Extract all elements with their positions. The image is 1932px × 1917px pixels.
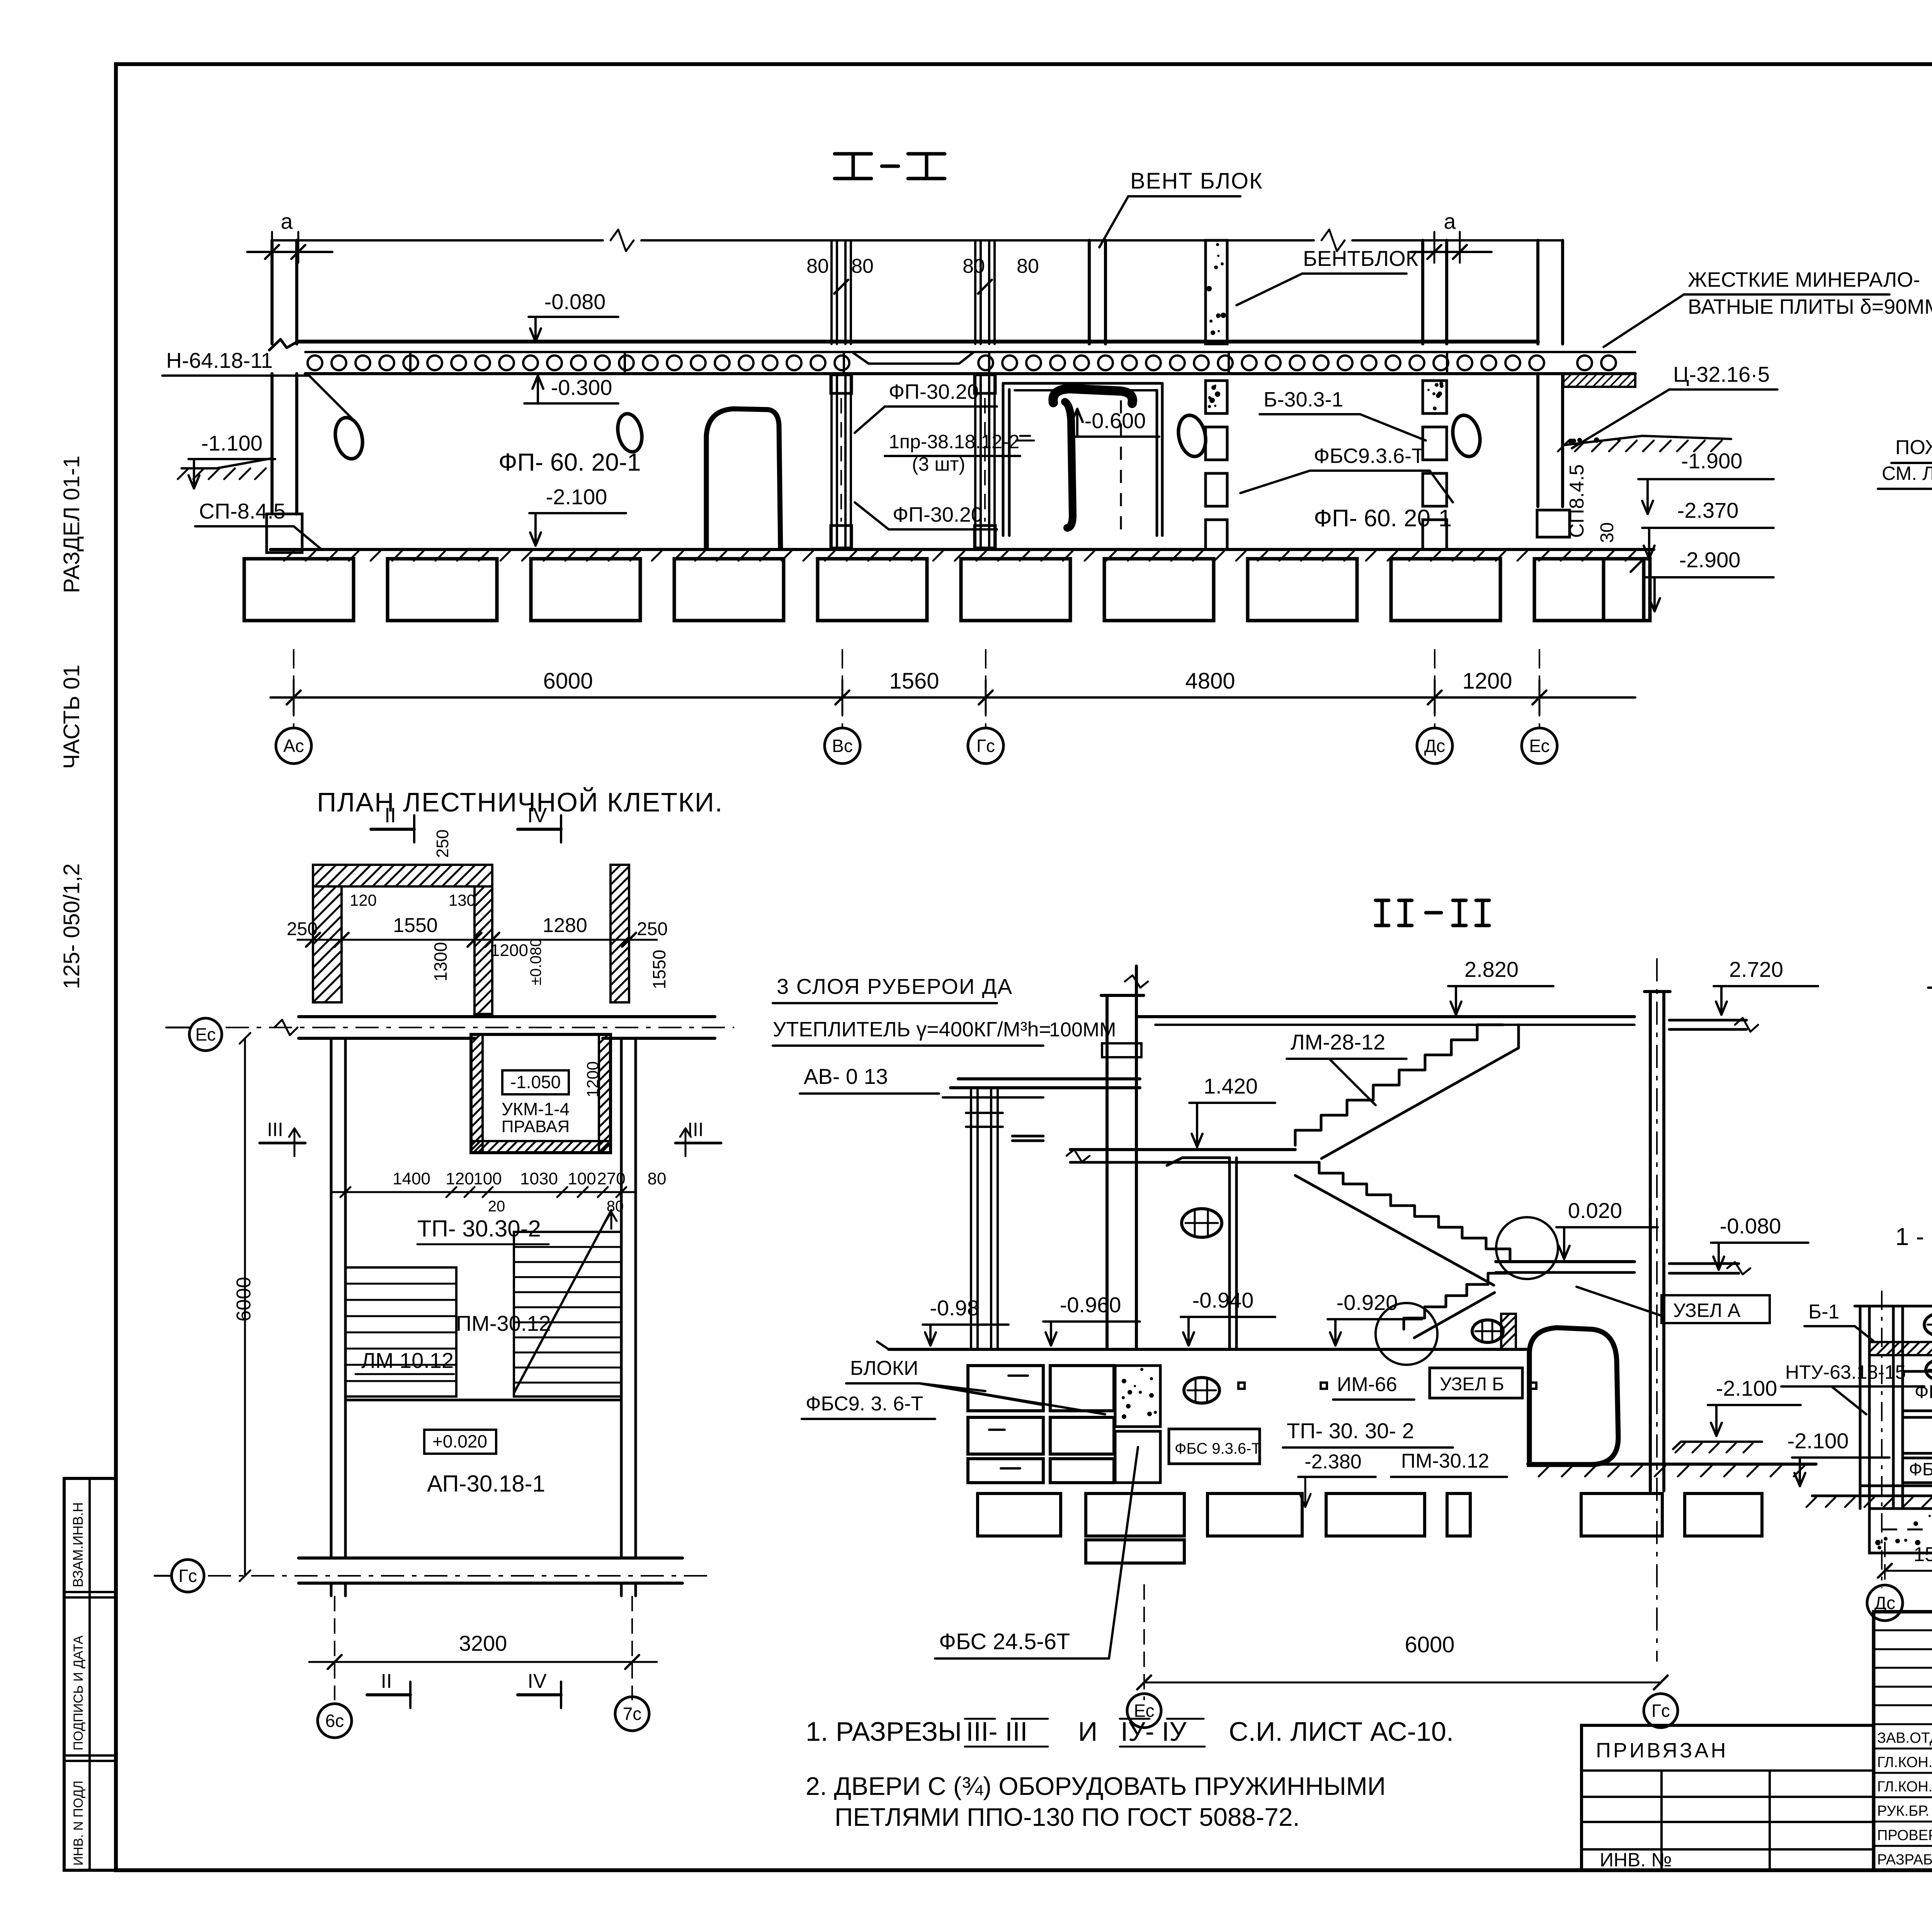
privyazan table (1582, 1725, 1874, 1871)
svg-text:ФБС 9.3.6-Т: ФБС 9.3.6-Т (1175, 1440, 1261, 1457)
partition Bc below slab (831, 374, 852, 549)
label FP-30.20 upper (855, 380, 997, 433)
svg-text:УТЕПЛИТЕЛЬ γ=400КГ/М³h=: УТЕПЛИТЕЛЬ γ=400КГ/М³h= (773, 1018, 1051, 1041)
svg-text:ПРОВЕР: ПРОВЕР (1877, 1827, 1932, 1844)
svg-text:20: 20 (488, 1198, 505, 1215)
svg-text:-1.900: -1.900 (1681, 449, 1743, 473)
level -2.100 (II-II right) (1708, 1376, 1801, 1436)
level -0.940 (1181, 1288, 1275, 1345)
plan left wall (331, 1038, 345, 1558)
wall at axis Dc above slab (1423, 240, 1447, 344)
door frame opening (1003, 383, 1162, 536)
dim a (right) (1410, 209, 1492, 263)
plan wall at axis Ec (166, 1017, 734, 1038)
svg-text:100: 100 (568, 1169, 596, 1188)
detail circle uzel B area (1376, 1303, 1437, 1365)
II-II Gc wall (1645, 958, 1670, 1662)
II-II hatched pier at stair (1501, 1314, 1516, 1349)
label TP-30.30-2 (II-II) (1283, 1419, 1453, 1448)
svg-text:1пр-38.18.12-2: 1пр-38.18.12-2 (889, 431, 1019, 452)
svg-text:1 - 1: 1 - 1 (1895, 1223, 1932, 1250)
svg-text:АП-30.18-1: АП-30.18-1 (427, 1471, 545, 1497)
svg-text:3200: 3200 (459, 1631, 507, 1655)
label 3 sloya ruberoida (773, 974, 1013, 1003)
svg-text:2. ДВЕРИ С (¾) ОБОРУДОВАТЬ: 2. ДВЕРИ С (¾) ОБОРУДОВАТЬ ПРУЖИННЫМИ (806, 1772, 1386, 1800)
vent block stack below slab (1206, 381, 1227, 549)
note 2 line 1 (806, 1772, 1386, 1800)
label 1pr-38.18.12-2 (885, 431, 1020, 475)
plan landing UKM-1-4 (471, 1034, 611, 1153)
1-1 brick 1 (1924, 1313, 1932, 1336)
svg-text:Гс: Гс (179, 1566, 197, 1586)
II-II left wall below (1102, 1043, 1141, 1349)
ground slope right of Ec (1558, 436, 1731, 451)
1-1 dashed bottom line (1882, 1529, 1932, 1531)
svg-text:6000: 6000 (233, 1277, 255, 1322)
svg-text:ФБС9.3.6-Т: ФБС9.3.6-Т (1314, 444, 1424, 468)
svg-text:ФП- 60. 20-1: ФП- 60. 20-1 (498, 448, 641, 476)
wall at axis Ec (right exterior wall) (1538, 240, 1563, 344)
svg-text:1400: 1400 (393, 1169, 430, 1188)
brick symbol 1 (1182, 1209, 1222, 1237)
svg-text:-0.960: -0.960 (1060, 1293, 1121, 1317)
label IM-66 (1238, 1373, 1414, 1400)
section mark II bottom (367, 1670, 410, 1708)
svg-text:-0.920: -0.920 (1337, 1290, 1398, 1315)
svg-text:1.420: 1.420 (1204, 1074, 1258, 1098)
stamp signature grid (1874, 1612, 1932, 1870)
wall at axis Ac (left exterior wall) (272, 240, 297, 344)
svg-text:0.020: 0.020 (1568, 1198, 1622, 1223)
svg-text:6с: 6с (325, 1711, 344, 1731)
II-II ground hatch right (1528, 1464, 1816, 1476)
brick symbol 3 (1472, 1320, 1503, 1342)
svg-text:1200: 1200 (583, 1061, 602, 1097)
label B-1 (1804, 1301, 1873, 1341)
label FBS 24.5-6T (935, 1447, 1138, 1658)
svg-text:ВЕНТ БЛОК: ВЕНТ БЛОК (1130, 168, 1263, 194)
svg-text:ПМ-30.12: ПМ-30.12 (456, 1311, 551, 1335)
left margin rotated doc number (59, 456, 84, 989)
section mark IV bottom (518, 1670, 561, 1708)
label ventblok 2 (1236, 246, 1418, 305)
svg-text:-0.940: -0.940 (1192, 1288, 1254, 1312)
svg-text:ПОДПИСЬ И ДАТА: ПОДПИСЬ И ДАТА (71, 1635, 86, 1750)
plan right wall (621, 1038, 636, 1558)
level 0.020 (1556, 1198, 1658, 1259)
dimension chain I-I (270, 668, 1635, 715)
II-II right blob (1529, 1328, 1618, 1465)
label FBS-24.3-6 a (1915, 1382, 1932, 1402)
svg-text:-2.370: -2.370 (1677, 498, 1739, 522)
svg-text:II: II (384, 804, 396, 827)
svg-text:IV: IV (527, 1670, 546, 1692)
svg-text:Вс: Вс (832, 736, 853, 756)
svg-text:1200: 1200 (1462, 668, 1512, 694)
label B-30.3-1 (1260, 388, 1426, 441)
svg-text:250: 250 (287, 919, 318, 939)
svg-text:2.820: 2.820 (1464, 957, 1519, 981)
plan mid divider line (345, 1399, 621, 1402)
svg-text:БЛОКИ: БЛОКИ (850, 1357, 918, 1379)
svg-text:Ас: Ас (283, 736, 304, 756)
svg-text:80: 80 (648, 1169, 667, 1188)
svg-text:-2.380: -2.380 (1304, 1451, 1361, 1473)
plan axis circle Ec (189, 1018, 222, 1051)
label LM-28-12 (1287, 1030, 1406, 1105)
wall above slab between Gc and Dc (1089, 240, 1105, 344)
level 1.420 (1189, 1074, 1275, 1147)
label AP-30.18-1 (plan) (427, 1471, 545, 1497)
svg-text:-0.080: -0.080 (1720, 1214, 1781, 1238)
svg-text:100: 100 (473, 1169, 502, 1188)
svg-text:-2.100: -2.100 (546, 485, 607, 509)
svg-text:270: 270 (597, 1169, 625, 1188)
note 2 line 2 (835, 1803, 1300, 1831)
svg-text:1. РАЗРЕЗЫ: 1. РАЗРЕЗЫ (806, 1716, 962, 1747)
level 2.720 (1714, 957, 1818, 1015)
svg-text:-2.900: -2.900 (1679, 548, 1741, 572)
svg-text:250: 250 (433, 830, 452, 858)
svg-text:ПЕТЛЯМИ ППО-130 ПО ГОСТ 508: ПЕТЛЯМИ ППО-130 ПО ГОСТ 5088-72. (835, 1803, 1300, 1831)
label mineral wool plates (1604, 268, 1932, 347)
level -0.300 (524, 375, 618, 403)
vent block wall above slab (1206, 240, 1227, 344)
II-II dim 6000 (1137, 1584, 1668, 1700)
level -0.920 (1328, 1290, 1422, 1345)
svg-text:120: 120 (446, 1169, 474, 1188)
svg-text:ПЛАН ЛЕСТНИЧНОЙ КЛЕТКИ.: ПЛАН ЛЕСТНИЧНОЙ КЛЕТКИ. (317, 787, 723, 817)
svg-text:1560: 1560 (1913, 1543, 1932, 1566)
label NTU-63.18-15 (1781, 1361, 1924, 1414)
svg-text:ФБС 24.5-6Т: ФБС 24.5-6Т (939, 1629, 1070, 1654)
II-II roof slab (1136, 1017, 1634, 1025)
svg-text:7с: 7с (623, 1704, 642, 1724)
svg-text:ИНВ. №: ИНВ. № (1600, 1849, 1672, 1871)
label SP-8.4.5 left (195, 499, 321, 549)
svg-text:80: 80 (851, 255, 874, 277)
svg-text:120: 120 (350, 891, 377, 909)
axis circle Gc (II-II) (1644, 1694, 1678, 1728)
plan section mark III left (260, 1119, 305, 1156)
dims 80 at partitions (806, 255, 1039, 294)
svg-text:Б-1: Б-1 (1808, 1301, 1839, 1323)
svg-text:БЕНТБЛОК: БЕНТБЛОК (1303, 246, 1418, 270)
label blok i FBS (II-II) (802, 1357, 1105, 1419)
svg-text:ЛМ-28-12: ЛМ-28-12 (1291, 1030, 1385, 1054)
svg-text:ПМ-30.12: ПМ-30.12 (1401, 1450, 1489, 1472)
partition pair at axis Gc above slab (975, 240, 995, 344)
svg-text:-1.050: -1.050 (510, 1072, 561, 1092)
svg-text:Ц-32.16·5: Ц-32.16·5 (1673, 362, 1770, 386)
axis circle Dc (1-1) (1867, 1585, 1903, 1621)
plan dim 3200 (309, 1596, 657, 1700)
plan level +0.020 (424, 1430, 496, 1454)
svg-text:ФБС-24.3.6: ФБС-24.3.6 (1909, 1459, 1932, 1479)
1-1 brick 2 (1926, 1360, 1932, 1380)
svg-text:80: 80 (806, 255, 829, 277)
plan middle dimension chain (331, 1169, 666, 1215)
svg-text:РАЗДЕЛ 01-1: РАЗДЕЛ 01-1 (59, 456, 84, 593)
block stack at Dc below slab (1423, 381, 1447, 549)
svg-text:ВАТНЫЕ ПЛИТЫ δ=90ММ: ВАТНЫЕ ПЛИТЫ δ=90ММ (1688, 295, 1932, 318)
label FBS9.3.6-T (I-I) (1240, 444, 1453, 502)
1-1 block courses (1903, 1371, 1932, 1483)
svg-text:ЧАСТЬ 01: ЧАСТЬ 01 (59, 665, 84, 769)
solid slab panel FP-30.20 (no voids) (853, 353, 973, 364)
level -1.900 (1638, 449, 1774, 514)
floor slab with hollow core circles (269, 339, 1635, 374)
label FP-60.20-1 right (1314, 505, 1452, 532)
svg-text:ПРАВАЯ: ПРАВАЯ (502, 1117, 570, 1136)
wall Ac below slab (267, 374, 302, 553)
II-II right wall stub slab (1669, 1018, 1758, 1032)
svg-text:125- 050/1,2: 125- 050/1,2 (59, 863, 84, 989)
II-II concrete pier (1115, 1366, 1160, 1483)
svg-text:1030: 1030 (520, 1169, 558, 1188)
svg-text:-0.300: -0.300 (551, 375, 612, 400)
svg-text:-0.98: -0.98 (930, 1296, 979, 1320)
dim a (left) (247, 209, 332, 263)
label TP-30.30-2 (plan) (417, 1216, 549, 1244)
section mark IV top (518, 804, 561, 842)
section I-I top break line (272, 230, 1563, 251)
plan section mark III right (675, 1119, 721, 1156)
svg-text:80: 80 (1017, 255, 1039, 277)
wall Ec below slab (1537, 374, 1570, 537)
hole ellipse 4 (1449, 413, 1484, 459)
foundation slab blocks row (I-I) (244, 559, 1650, 621)
partition pair at axis Bc above slab (832, 240, 851, 344)
1-1 ground hatch bottom (1806, 1486, 1932, 1507)
plan axis circle 7c (615, 1697, 649, 1731)
svg-text:6000: 6000 (1405, 1632, 1454, 1657)
door shape 1 (706, 409, 781, 549)
svg-text:ГЛ.КОН.ПР: ГЛ.КОН.ПР (1877, 1779, 1932, 1795)
II-II small wall mark (1012, 1136, 1043, 1141)
level -2.370 (1642, 498, 1774, 559)
svg-text:Гс: Гс (1651, 1701, 1670, 1721)
II-II parapet wall (1101, 966, 1148, 1043)
II-II canopy slab (943, 1079, 1140, 1097)
svg-text:а: а (281, 209, 293, 233)
level 2.820 (1448, 957, 1553, 1015)
label PM-30.12 (plan) (456, 1311, 551, 1335)
svg-text:УЗЕЛ Б: УЗЕЛ Б (1440, 1374, 1504, 1395)
level -0.960 (1043, 1293, 1140, 1345)
svg-text:±0.080: ±0.080 (527, 938, 544, 985)
plan wall at axis Gc (155, 1558, 707, 1596)
svg-text:III- III: III- III (966, 1716, 1027, 1747)
level -2.380 (1298, 1450, 1507, 1507)
basement floor line (270, 549, 1654, 561)
svg-text:ЗАВ.ОТД: ЗАВ.ОТД (1877, 1730, 1932, 1746)
plan top wall left pier (313, 886, 342, 1002)
partition Gc below slab (975, 374, 995, 549)
II-II left footing blocks (968, 1366, 1114, 1483)
svg-text:ЖЕСТКИЕ МИНЕРАЛО-: ЖЕСТКИЕ МИНЕРАЛО- (1688, 268, 1920, 291)
svg-text:РУК.БР.: РУК.БР. (1877, 1803, 1929, 1819)
axis circle Bc (I-I) (825, 649, 860, 764)
svg-text:Н-64.18-11: Н-64.18-11 (166, 348, 273, 373)
svg-text:-2.100: -2.100 (1716, 1376, 1777, 1400)
II-II middle flight (1295, 1162, 1510, 1285)
svg-text:Дс: Дс (1874, 1593, 1895, 1613)
1-1 hatched slab (1869, 1342, 1932, 1355)
II-II ground floor slab (1496, 1262, 1750, 1274)
plan flight LM (left) (345, 1267, 456, 1397)
svg-text:130: 130 (449, 891, 476, 909)
svg-text:ГЛ.КОН.ОТД: ГЛ.КОН.ОТД (1877, 1754, 1932, 1771)
svg-text:30: 30 (1597, 522, 1617, 543)
axis circle Ac (I-I) (276, 649, 311, 764)
plan axis circle 6c (318, 1704, 352, 1738)
svg-text:IУ- IУ: IУ- IУ (1121, 1716, 1187, 1747)
stair plan title (317, 787, 723, 817)
svg-text:НТУ-63.18-15: НТУ-63.18-15 (1785, 1361, 1906, 1383)
label uteplitel (773, 1018, 1116, 1046)
svg-text:1300: 1300 (430, 942, 451, 981)
svg-text:ТП- 30. 30- 2: ТП- 30. 30- 2 (1287, 1419, 1414, 1443)
1-1 ground left (1673, 1442, 1762, 1453)
svg-text:6000: 6000 (543, 668, 593, 694)
detail circle uzel A (1496, 1217, 1558, 1279)
II-II lower flight (1404, 1273, 1509, 1338)
svg-text:3 СЛОЯ РУБЕРОИ ДА: 3 СЛОЯ РУБЕРОИ ДА (777, 974, 1013, 998)
svg-text:Б-30.3-1: Б-30.3-1 (1264, 388, 1344, 411)
svg-text:Дс: Дс (1424, 736, 1445, 756)
II-II mid landing (1066, 1150, 1295, 1162)
svg-text:ИНВ. N ПОДЛ: ИНВ. N ПОДЛ (71, 1781, 86, 1866)
label pozharny vykhod (1878, 436, 1932, 580)
svg-text:1550: 1550 (393, 914, 438, 937)
II-II porch columns (966, 1088, 1003, 1348)
svg-text:С.И. ЛИСТ АС-10.: С.И. ЛИСТ АС-10. (1229, 1716, 1454, 1747)
svg-text:1200: 1200 (490, 941, 528, 960)
svg-text:Гс: Гс (976, 736, 995, 756)
II-II basement floor (877, 1342, 1530, 1349)
note 1 (806, 1716, 1454, 1747)
level -2.100 (1-1 left b) (1787, 1429, 1889, 1486)
svg-text:-0.080: -0.080 (544, 289, 606, 314)
svg-text:УЗЕЛ А: УЗЕЛ А (1673, 1300, 1741, 1321)
label uzel A (1577, 1287, 1770, 1323)
svg-text:а: а (1444, 209, 1456, 233)
svg-text:-1.100: -1.100 (201, 431, 263, 455)
stamp signature rows (1877, 1727, 1932, 1868)
II-II inner wall (1167, 1158, 1236, 1349)
svg-text:80: 80 (963, 255, 985, 277)
svg-text:УКМ-1-4: УКМ-1-4 (502, 1099, 570, 1119)
II-II foundation blocks row (978, 1493, 1762, 1563)
hole ellipse 3 (1175, 413, 1209, 459)
label ventblok top (1099, 168, 1263, 247)
section mark II top (371, 804, 414, 842)
plan top wall band (313, 865, 492, 886)
level -2.100 (I-I) (529, 485, 626, 546)
svg-text:АВ- 0 13: АВ- 0 13 (804, 1064, 888, 1089)
plan top dimension chain (287, 891, 669, 989)
label FP-30.20 lower (855, 502, 997, 529)
svg-text:Ес: Ес (195, 1024, 216, 1044)
svg-text:ПРИВЯЗАН: ПРИВЯЗАН (1596, 1739, 1728, 1762)
svg-text:ПОЖАРНЫЙ ВЫХОД: ПОЖАРНЫЙ ВЫХОД (1895, 436, 1932, 459)
svg-text:IV: IV (527, 804, 547, 827)
label AV-0 13 (800, 1064, 939, 1094)
label SP8.4.5 rotated (1566, 464, 1588, 538)
hole ellipse 1 (332, 415, 366, 461)
svg-text:ФП-30.20: ФП-30.20 (893, 503, 983, 526)
plan axis circle Gc (172, 1560, 204, 1592)
level -2.900 (1645, 548, 1774, 611)
left margin inventory stamp strip (64, 1478, 116, 1870)
1-1 stipple footing (1869, 1509, 1932, 1553)
1-1 dim 1560 (1878, 1509, 1932, 1584)
axis circle Gc (I-I) (968, 649, 1003, 764)
level -0.98 (923, 1296, 1009, 1345)
svg-text:ФП-30.20: ФП-30.20 (889, 380, 979, 403)
label FBS 9.3.6-T box (II-II) (1169, 1429, 1261, 1464)
svg-text:1550: 1550 (649, 950, 669, 989)
svg-text:1280: 1280 (543, 914, 587, 937)
brick symbol 2 (1184, 1378, 1219, 1403)
hole ellipse 2 (614, 412, 645, 454)
label C-32.16-5 (1572, 362, 1777, 448)
label uzel B (1430, 1368, 1536, 1398)
1-1 wall (1855, 1291, 1932, 1588)
section I-I title (835, 154, 945, 179)
ground slope left of Ac (178, 458, 272, 479)
axis circle Ec (II-II) (1127, 1694, 1161, 1728)
svg-text:ФБС9. 3. 6-Т: ФБС9. 3. 6-Т (806, 1393, 923, 1415)
svg-text:II: II (381, 1670, 392, 1692)
svg-text:-2.100: -2.100 (1787, 1429, 1849, 1453)
plan dim 6000 rotated (233, 1033, 255, 1581)
label N-64.18-11 (162, 348, 355, 422)
svg-text:III: III (267, 1119, 283, 1140)
label FBS-24.3.6 c (1909, 1459, 1932, 1479)
svg-text:+0.020: +0.020 (432, 1431, 487, 1451)
label vkhod v tekhpodpolye (1928, 912, 1932, 1015)
svg-text:ВЗАМ.ИНВ.Н: ВЗАМ.ИНВ.Н (70, 1502, 86, 1587)
dim 250 top rotated (433, 830, 452, 858)
axis circle Ec (I-I) (1522, 649, 1557, 764)
svg-text:ИМ-66: ИМ-66 (1337, 1373, 1397, 1396)
svg-text:Ес: Ес (1529, 736, 1549, 756)
svg-text:III: III (687, 1119, 704, 1140)
svg-text:СМ. ЛИСТ АС-10: СМ. ЛИСТ АС-10 (1882, 463, 1932, 484)
svg-text:2.720: 2.720 (1729, 957, 1783, 981)
section II-II title (1376, 900, 1489, 925)
plan top wall mid pier (474, 886, 492, 1014)
axis circle Dc (I-I) (1417, 649, 1452, 764)
plan flight PM (right) (514, 1210, 621, 1397)
II-II upper flight (1295, 1025, 1519, 1158)
level -0.080 (II-II) (1711, 1214, 1808, 1270)
svg-text:-0.600: -0.600 (1085, 408, 1146, 433)
plan top wall right pier (611, 865, 629, 1002)
label LM 10.12 (plan) (355, 1348, 454, 1374)
curtain blob in door (1016, 389, 1133, 533)
label FP-60.20-1 left (498, 448, 641, 476)
level -0.600 (1070, 408, 1159, 437)
dim 30 rotated (1597, 522, 1645, 572)
level -0.080 (529, 289, 618, 342)
svg-text:4800: 4800 (1185, 668, 1235, 694)
svg-text:1560: 1560 (889, 668, 939, 694)
svg-text:РАЗРАБ: РАЗРАБ (1877, 1852, 1932, 1868)
svg-text:ЛМ 10.12: ЛМ 10.12 (361, 1348, 454, 1373)
